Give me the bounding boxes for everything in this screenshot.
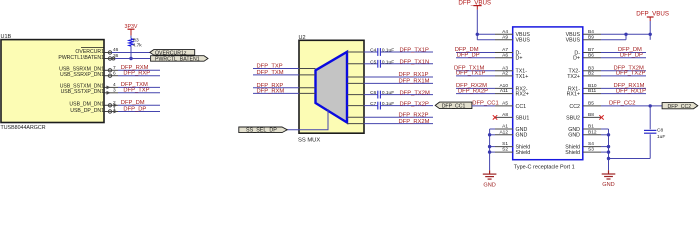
U1B pin 3 USB_SSTXP_DN1 (61, 87, 118, 95)
svg-text:USB_SSRXP_DN1: USB_SSRXP_DN1 (60, 72, 104, 78)
svg-text:A9: A9 (502, 34, 508, 40)
svg-text:GND: GND (568, 133, 580, 139)
svg-text:VBUS: VBUS (566, 38, 581, 44)
wire U1B pin36 to PWRCTL_BATEN1 flag (115, 58, 150, 60)
svg-text:A10: A10 (499, 83, 508, 89)
power symbol DFP_VBUS (left) (458, 0, 491, 10)
J1 pin A10 RX2- (495, 83, 528, 92)
svg-text:GND: GND (602, 182, 614, 188)
svg-text:RX2+: RX2+ (516, 92, 529, 98)
J1 pin A1 GND (495, 124, 527, 133)
wire net DFP_TXP from U1B pin 3 (118, 88, 160, 94)
svg-text:DFP_TX1N: DFP_TX1N (400, 60, 430, 66)
no-connect X on pin A8 SBU1 (493, 115, 497, 119)
svg-text:DFP_DP: DFP_DP (620, 52, 643, 58)
U1B pin 2 USB_DM_DN1 (69, 100, 118, 108)
svg-text:4.7k: 4.7k (133, 42, 143, 48)
svg-text:B4: B4 (588, 29, 594, 35)
svg-text:7: 7 (113, 65, 116, 71)
mux select wire to SS_SEL_DP (287, 109, 328, 130)
svg-text:DFP_RX1P: DFP_RX1P (399, 72, 429, 78)
junctions on right GND wire (607, 133, 610, 160)
mux input wire DFP_TXM (253, 70, 316, 76)
svg-text:1uF: 1uF (657, 134, 665, 140)
wire net DFP_RX2M to J1 (456, 83, 495, 89)
svg-text:C5: C5 (370, 59, 376, 65)
ground symbol (left) (483, 170, 497, 188)
U1B pin 7 USB_SSRXM_DN1 (59, 65, 118, 73)
wire U1B pin46 to OVERCUR1z flag (112, 52, 150, 54)
svg-text:USB_DM_DN1: USB_DM_DN1 (69, 102, 104, 108)
svg-text:DFP_CC2: DFP_CC2 (609, 100, 635, 106)
svg-text:A2: A2 (502, 71, 508, 77)
junctions on left GND wire (488, 133, 491, 154)
svg-text:A12: A12 (499, 129, 508, 135)
wire net DFP_DP from U1B pin 1 (118, 106, 160, 112)
svg-text:C8: C8 (657, 128, 663, 134)
svg-text:TX2+: TX2+ (567, 74, 580, 80)
svg-text:D+: D+ (573, 56, 580, 62)
wire net DFP_TX1P to J1 (456, 71, 495, 77)
svg-text:B2: B2 (588, 71, 594, 77)
svg-text:CC2: CC2 (569, 104, 580, 110)
wire net DFP_DP to J1 (456, 52, 495, 58)
J1 pin B1 GND (568, 124, 601, 133)
J1 pin B4 VBUS (566, 29, 601, 38)
mux input wire DFP_RXP (253, 83, 316, 89)
wire net DFP_DM from J1 (601, 47, 646, 53)
svg-text:B7: B7 (588, 47, 594, 53)
svg-text:SBU2: SBU2 (566, 115, 580, 121)
svg-text:4: 4 (113, 82, 116, 88)
left GND net wires (490, 129, 495, 170)
svg-text:DFP_RXP: DFP_RXP (123, 71, 150, 77)
svg-text:DFP_CC1: DFP_CC1 (442, 103, 466, 109)
svg-text:C7: C7 (370, 101, 376, 107)
svg-text:SS_SEL_DP: SS_SEL_DP (246, 128, 277, 134)
mux output DFP_TX2P with capacitor C7 0.1uF (347, 101, 433, 109)
J1 pin B5 CC2 (569, 101, 601, 110)
svg-text:U2: U2 (299, 35, 306, 41)
resistor R3 4.7k (129, 37, 143, 48)
svg-text:A1: A1 (502, 124, 508, 130)
wire net DFP_DM from U1B pin 2 (118, 100, 160, 106)
J1 pin A9 VBUS (495, 34, 530, 43)
svg-text:0.1uF: 0.1uF (382, 101, 394, 107)
svg-text:A8: A8 (502, 112, 508, 118)
mux trapezoid symbol (316, 52, 348, 123)
svg-text:B12: B12 (588, 129, 597, 135)
power symbol DFP_VBUS (right) (636, 10, 669, 21)
svg-text:B5: B5 (588, 101, 594, 107)
J1 pin B11 RX1+ (567, 88, 601, 97)
svg-text:Type-C receptacle Port 1: Type-C receptacle Port 1 (514, 165, 575, 171)
mux output DFP_RX2P (347, 112, 433, 118)
svg-text:A5: A5 (502, 101, 508, 107)
svg-text:A7: A7 (502, 47, 508, 53)
svg-text:Shield: Shield (565, 150, 580, 156)
wire R3 to PWRCTL net (130, 46, 132, 58)
U2 SS MUX (298, 35, 364, 144)
J1 pin S4 Shield (565, 141, 601, 150)
U1B pin 46 OVERCUR1 (75, 47, 118, 55)
junction CC2/C8 (649, 104, 652, 107)
svg-text:A6: A6 (502, 52, 508, 58)
svg-text:Shield: Shield (516, 150, 531, 156)
J1 pin A8 SBU1 (495, 112, 529, 121)
svg-text:DFP_RX1M: DFP_RX1M (399, 79, 430, 85)
svg-text:0.1uF: 0.1uF (382, 48, 394, 54)
J1 pin B6 D+ (573, 52, 601, 61)
off-page connector OVERCUR1z (150, 50, 195, 57)
svg-text:B10: B10 (588, 83, 597, 89)
off-page connector SS_SEL_DP (239, 127, 287, 134)
wire net DFP_DM to J1 (455, 47, 495, 53)
wire net DFP_RXM from U1B pin 7 (118, 65, 160, 71)
svg-text:DFP_DM: DFP_DM (121, 100, 145, 106)
svg-text:B8: B8 (588, 112, 594, 118)
svg-text:DFP_TX2M: DFP_TX2M (400, 90, 430, 96)
svg-text:0.1uF: 0.1uF (382, 90, 394, 96)
svg-text:S2: S2 (502, 147, 508, 153)
svg-text:B1: B1 (588, 124, 594, 130)
wire net DFP_TX2M from J1 (601, 65, 646, 71)
svg-text:PWRCTL_BATEN1: PWRCTL_BATEN1 (155, 56, 200, 62)
svg-text:B6: B6 (588, 52, 594, 58)
svg-text:DFP_TXP: DFP_TXP (257, 64, 283, 70)
svg-text:VBUS: VBUS (516, 38, 531, 44)
J1 pin A3 TX1- (495, 65, 527, 74)
wire net DFP_RX1P from J1 (601, 88, 646, 94)
svg-text:DFP_TX1P: DFP_TX1P (456, 71, 485, 77)
svg-text:DFP_RX2P: DFP_RX2P (399, 112, 429, 118)
J1 pin A4 VBUS (495, 29, 530, 38)
wire DFP_VBUS to pins B4 B9 (601, 21, 650, 40)
svg-text:USB_DP_DN1: USB_DP_DN1 (70, 108, 104, 114)
svg-text:DFP_TXM: DFP_TXM (257, 70, 284, 76)
mux output DFP_RX1M (347, 79, 433, 85)
svg-text:DFP_TX2P: DFP_TX2P (400, 101, 429, 107)
junction R3 / pin 36 wire (129, 57, 132, 60)
svg-text:SS MUX: SS MUX (298, 138, 320, 144)
svg-text:1: 1 (113, 106, 116, 112)
svg-text:C6: C6 (370, 90, 376, 96)
svg-text:DFP_RX2M: DFP_RX2M (399, 119, 430, 125)
U1B TUSB8044ARGCR hub (1, 34, 105, 131)
wire net DFP_DP from J1 (601, 52, 646, 58)
wire net DFP_TX1M to J1 (454, 65, 495, 71)
junctions VBUS/B4 (624, 33, 652, 36)
mux input wire DFP_RXM (253, 88, 316, 94)
J1 pin A5 CC1 (495, 101, 526, 110)
mux input wire DFP_TXP (253, 64, 316, 70)
svg-text:B3: B3 (588, 65, 594, 71)
U1B pin 36 PWRCTL1\BATEN1 (58, 53, 118, 61)
svg-text:SBU1: SBU1 (516, 115, 530, 121)
svg-text:0.1uF: 0.1uF (382, 59, 394, 65)
svg-text:TUSB8044ARGCR: TUSB8044ARGCR (1, 125, 46, 131)
J1 pin B8 SBU2 (566, 112, 601, 121)
svg-text:RX1+: RX1+ (567, 92, 580, 98)
wire CC2 to DFP_CC2 flag (601, 100, 662, 106)
svg-text:A3: A3 (502, 65, 508, 71)
J1 pin B7 D- (574, 47, 601, 56)
svg-text:DFP_DP: DFP_DP (123, 106, 146, 112)
wire net DFP_TXM from U1B pin 4 (118, 82, 160, 88)
svg-text:DFP_TX2P: DFP_TX2P (616, 71, 645, 77)
wire net DFP_RX1M from J1 (601, 83, 646, 89)
no-connect X on pin B8 SBU2 (599, 115, 603, 119)
off-page connector DFP_CC1 (435, 102, 472, 109)
off-page connector DFP_CC2 (662, 103, 698, 110)
svg-text:U1B: U1B (1, 34, 12, 40)
J1 pin B10 RX1- (568, 83, 601, 92)
svg-text:S4: S4 (588, 141, 594, 147)
wire DFP_CC1 to J1 pin A5 (472, 101, 499, 107)
mux output DFP_RX1P (347, 72, 433, 78)
right GND net wires (601, 129, 650, 170)
svg-text:DFP_RXM: DFP_RXM (257, 88, 285, 94)
mux output DFP_TX1P with capacitor C4 0.1uF (347, 48, 433, 56)
svg-text:S3: S3 (588, 147, 594, 153)
svg-text:DFP_VBUS: DFP_VBUS (636, 10, 669, 17)
U1B pin 4 USB_SSTXM_DN1 (60, 82, 118, 90)
svg-text:B11: B11 (588, 88, 597, 94)
mux output DFP_TX2M with capacitor C6 0.1uF (347, 90, 433, 98)
wire net DFP_RXP from U1B pin 6 (118, 71, 160, 77)
svg-text:DFP_RX1P: DFP_RX1P (616, 88, 646, 94)
wire 3P3V to R3 (130, 36, 132, 39)
J1 pin B9 VBUS (566, 34, 601, 43)
J1 pin B3 TX2- (569, 65, 601, 74)
off-page connector PWRCTL_BATEN1 (151, 56, 208, 63)
J1 pin A2 TX1+ (495, 71, 528, 80)
junction VBUS/A4 (476, 33, 479, 36)
J1 pin A11 RX2+ (495, 88, 529, 97)
connector J1 Type-C receptacle Port 1 (513, 27, 583, 171)
wire net DFP_RX2P to J1 (456, 88, 495, 94)
svg-text:DFP_RX2P: DFP_RX2P (458, 88, 488, 94)
svg-text:USB_SSTXP_DN1: USB_SSTXP_DN1 (61, 89, 105, 95)
J1 pin S2 Shield (495, 147, 530, 156)
svg-text:B9: B9 (588, 34, 594, 40)
svg-text:3: 3 (113, 87, 116, 93)
J1 pin A12 GND (495, 129, 527, 138)
svg-text:S1: S1 (502, 141, 508, 147)
svg-text:C4: C4 (370, 48, 376, 54)
svg-text:A4: A4 (502, 29, 508, 35)
svg-text:DFP_DP: DFP_DP (457, 52, 480, 58)
svg-text:CC1: CC1 (516, 104, 527, 110)
mux output DFP_RX2M (347, 119, 433, 125)
svg-text:DFP_CC1: DFP_CC1 (472, 101, 498, 107)
svg-text:A11: A11 (500, 88, 509, 94)
svg-text:GND: GND (516, 133, 528, 139)
svg-text:6: 6 (113, 70, 116, 76)
wire net DFP_TX2P from J1 (601, 71, 646, 77)
mux output DFP_TX1N with capacitor C5 0.1uF (347, 59, 433, 67)
svg-text:DFP_TXP: DFP_TXP (123, 88, 149, 94)
J1 pin S1 Shield (495, 141, 530, 150)
svg-text:PWRCTL1\BATEN1: PWRCTL1\BATEN1 (58, 55, 104, 61)
J1 pin S3 Shield (565, 147, 601, 156)
svg-text:GND: GND (483, 182, 495, 188)
svg-text:DFP_CC2: DFP_CC2 (668, 104, 692, 110)
U1B pin 6 USB_SSRXP_DN1 (60, 70, 118, 78)
J1 pin A6 D+ (495, 52, 522, 61)
svg-text:2: 2 (113, 100, 116, 106)
wire DFP_VBUS to pins A4 A9 (477, 10, 495, 40)
ground symbol (right) (602, 170, 616, 188)
svg-text:D+: D+ (516, 56, 523, 62)
J1 pin B12 GND (568, 129, 601, 138)
U1B pin 1 USB_DP_DN1 (70, 106, 118, 114)
power symbol 3P3V (125, 24, 138, 36)
svg-text:DFP_TX1P: DFP_TX1P (400, 48, 429, 54)
J1 pin B2 TX2+ (567, 71, 601, 80)
J1 pin A7 D- (495, 47, 521, 56)
svg-text:TX1+: TX1+ (516, 74, 529, 80)
capacitor C8 1uF (644, 106, 665, 159)
